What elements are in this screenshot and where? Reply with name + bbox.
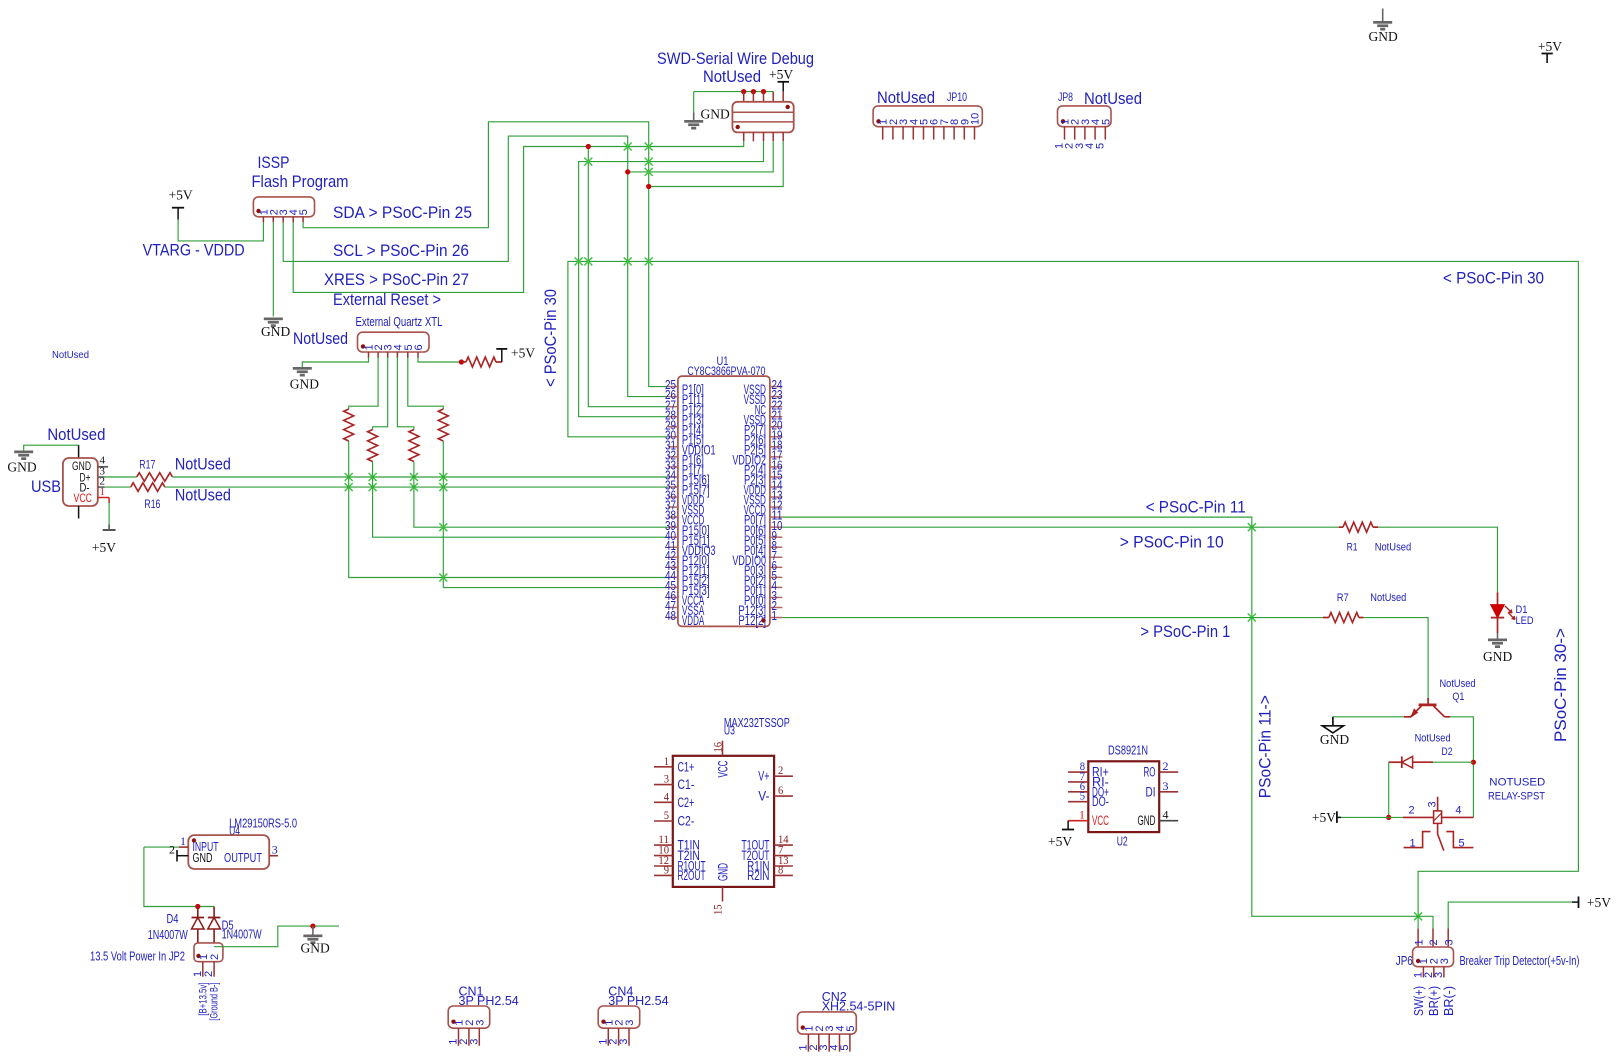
svg-text:5: 5: [1094, 143, 1106, 149]
svg-text:DS8921N: DS8921N: [1108, 743, 1148, 758]
svg-text:GND: GND: [261, 324, 290, 339]
svg-text:1: 1: [1413, 939, 1425, 945]
svg-text:1: 1: [1079, 808, 1085, 822]
svg-text:1: 1: [100, 486, 106, 498]
svg-text:Flash Program: Flash Program: [252, 172, 349, 191]
svg-text:V+: V+: [758, 769, 769, 784]
svg-text:VCC: VCC: [1092, 813, 1109, 828]
svg-text:BR(+): BR(+): [1426, 986, 1441, 1016]
svg-text:NotUsed: NotUsed: [52, 349, 89, 361]
svg-text:GND: GND: [1138, 813, 1156, 828]
svg-text:PSoC-Pin 30->: PSoC-Pin 30->: [1552, 628, 1570, 742]
svg-text:NotUsed: NotUsed: [1375, 542, 1412, 554]
svg-text:1N4007W: 1N4007W: [222, 927, 262, 941]
svg-text:5: 5: [1080, 789, 1085, 803]
svg-text:3: 3: [468, 1039, 480, 1045]
svg-text:1: 1: [664, 754, 669, 768]
svg-text:1: 1: [192, 971, 204, 977]
svg-text:5: 5: [298, 209, 310, 215]
svg-text:External Quartz XTL: External Quartz XTL: [356, 315, 443, 329]
svg-text:D2: D2: [1442, 746, 1453, 758]
svg-text:2: 2: [1409, 805, 1415, 817]
svg-text:48: 48: [665, 608, 676, 623]
svg-text:+5V: +5V: [511, 346, 535, 361]
svg-text:GND: GND: [701, 107, 730, 122]
svg-text:GND: GND: [72, 461, 91, 473]
svg-text:2: 2: [209, 954, 221, 960]
svg-text:3: 3: [1163, 779, 1169, 793]
svg-text:GND: GND: [193, 850, 213, 865]
svg-text:5: 5: [664, 808, 669, 822]
svg-text:4: 4: [100, 454, 106, 466]
svg-text:+5V: +5V: [1538, 39, 1562, 54]
svg-text:PSoC-Pin 11->: PSoC-Pin 11->: [1257, 695, 1275, 798]
svg-text:3: 3: [474, 1020, 486, 1026]
svg-text:U2: U2: [1117, 835, 1128, 849]
svg-text:NotUsed: NotUsed: [877, 89, 935, 107]
svg-text:2: 2: [1163, 759, 1169, 773]
svg-text:LED: LED: [1516, 615, 1534, 627]
svg-text:R2OUT: R2OUT: [678, 868, 706, 883]
svg-text:3: 3: [1439, 958, 1451, 964]
svg-text:< PSoC-Pin 30: < PSoC-Pin 30: [1443, 270, 1544, 288]
svg-text:> PSoC-Pin 1: > PSoC-Pin 1: [1140, 623, 1230, 641]
svg-text:GND: GND: [1320, 732, 1349, 747]
svg-text:JP10: JP10: [947, 90, 967, 104]
svg-text:NOTUSED: NOTUSED: [1489, 777, 1545, 789]
svg-text:ISSP: ISSP: [258, 153, 290, 172]
svg-text:USB: USB: [31, 477, 61, 496]
svg-text:+5V: +5V: [169, 188, 193, 203]
svg-text:8: 8: [778, 862, 783, 876]
svg-text:1: 1: [772, 608, 778, 623]
svg-text:3: 3: [272, 843, 278, 857]
svg-text:XRES > PSoC-Pin 27: XRES > PSoC-Pin 27: [324, 271, 469, 289]
svg-text:5: 5: [845, 1025, 857, 1031]
svg-text:13.5 Volt Power In JP2: 13.5 Volt Power In JP2: [90, 949, 185, 963]
svg-text:VCC: VCC: [74, 493, 93, 505]
svg-text:VDDA: VDDA: [682, 613, 704, 628]
svg-text:GND: GND: [1369, 29, 1398, 44]
svg-text:1: 1: [1410, 838, 1416, 850]
svg-text:NotUsed: NotUsed: [47, 426, 105, 444]
svg-text:+5V: +5V: [1048, 834, 1072, 849]
svg-text:2: 2: [1428, 939, 1440, 945]
svg-text:RELAY-SPST: RELAY-SPST: [1488, 791, 1545, 803]
svg-text:NotUsed: NotUsed: [1440, 678, 1476, 690]
svg-text:D4: D4: [167, 912, 179, 926]
svg-text:External Reset >: External Reset >: [333, 291, 441, 309]
svg-text:2: 2: [169, 843, 175, 857]
svg-text:[Ground B-]: [Ground B-]: [209, 983, 221, 1021]
svg-text:DI: DI: [1146, 784, 1156, 799]
svg-text:OUTPUT: OUTPUT: [224, 850, 262, 865]
svg-text:+5V: +5V: [92, 540, 116, 555]
svg-text:R7: R7: [1337, 592, 1349, 604]
svg-text:Breaker Trip Detector(+5v-In): Breaker Trip Detector(+5v-In): [1460, 953, 1580, 968]
svg-text:SW(+): SW(+): [1411, 986, 1426, 1016]
svg-text:NotUsed: NotUsed: [1370, 592, 1406, 604]
svg-text:GND: GND: [1483, 649, 1512, 664]
svg-text:16: 16: [710, 742, 724, 753]
svg-text:[B+13.5v]: [B+13.5v]: [197, 983, 209, 1016]
svg-text:JP8: JP8: [1058, 90, 1073, 104]
svg-text:SCL > PSoC-Pin 26: SCL > PSoC-Pin 26: [333, 242, 469, 260]
svg-text:SDA > PSoC-Pin 25: SDA > PSoC-Pin 25: [333, 204, 472, 222]
svg-text:VTARG - VDDD: VTARG - VDDD: [143, 242, 245, 260]
svg-text:SWD-Serial Wire Debug: SWD-Serial Wire Debug: [657, 49, 814, 68]
svg-text:4: 4: [664, 789, 669, 803]
svg-text:GND: GND: [290, 377, 319, 392]
svg-text:5: 5: [1100, 119, 1112, 125]
svg-text:R1: R1: [1347, 542, 1358, 554]
svg-text:C1-: C1-: [678, 777, 695, 792]
svg-text:C2+: C2+: [678, 795, 695, 810]
svg-text:R17: R17: [139, 459, 155, 471]
svg-text:2: 2: [203, 971, 215, 977]
svg-text:10: 10: [970, 113, 982, 125]
svg-text:4: 4: [1163, 808, 1169, 822]
svg-text:3: 3: [624, 1020, 636, 1026]
svg-text:R16: R16: [144, 499, 160, 511]
svg-text:1: 1: [198, 954, 210, 960]
svg-text:JP6: JP6: [1396, 953, 1413, 968]
svg-text:5: 5: [839, 1044, 851, 1050]
svg-text:R2IN: R2IN: [747, 868, 769, 883]
svg-text:VCC: VCC: [716, 760, 731, 777]
svg-text:NotUsed: NotUsed: [1415, 733, 1451, 745]
svg-text:+5V: +5V: [769, 67, 793, 82]
svg-text:5: 5: [1459, 838, 1465, 850]
svg-text:3: 3: [1426, 801, 1438, 807]
svg-text:1N4007W: 1N4007W: [148, 928, 188, 942]
svg-text:NotUsed: NotUsed: [703, 68, 761, 86]
svg-text:4: 4: [1455, 805, 1461, 817]
svg-text:3: 3: [664, 772, 669, 786]
svg-text:NotUsed: NotUsed: [293, 330, 348, 348]
svg-text:2: 2: [778, 763, 783, 777]
svg-text:GND: GND: [7, 460, 36, 475]
svg-text:C1+: C1+: [678, 759, 695, 774]
svg-text:C2-: C2-: [678, 814, 695, 829]
svg-text:NotUsed: NotUsed: [175, 487, 231, 505]
svg-text:V-: V-: [758, 789, 769, 804]
svg-text:1: 1: [180, 834, 186, 848]
svg-text:< PSoC-Pin 11: < PSoC-Pin 11: [1146, 499, 1246, 517]
svg-text:GND: GND: [301, 940, 330, 955]
svg-text:U3: U3: [724, 724, 735, 738]
svg-text:RO: RO: [1144, 765, 1156, 780]
svg-text:Q1: Q1: [1452, 691, 1464, 703]
svg-text:6: 6: [413, 344, 425, 350]
svg-text:15: 15: [710, 904, 724, 915]
svg-text:6: 6: [778, 783, 783, 797]
svg-text:> PSoC-Pin 10: > PSoC-Pin 10: [1120, 534, 1224, 552]
svg-text:3: 3: [1443, 939, 1455, 945]
svg-text:3: 3: [1433, 972, 1445, 978]
svg-text:GND: GND: [716, 863, 731, 881]
svg-text:+5V: +5V: [1312, 810, 1336, 825]
svg-text:9: 9: [664, 862, 669, 876]
svg-text:BR(-): BR(-): [1441, 986, 1456, 1016]
svg-text:NotUsed: NotUsed: [175, 456, 231, 474]
svg-text:< PSoC-Pin 30: < PSoC-Pin 30: [542, 289, 560, 387]
svg-text:DO-: DO-: [1092, 794, 1109, 809]
svg-text:+5V: +5V: [1587, 895, 1611, 910]
svg-text:3: 3: [618, 1039, 630, 1045]
